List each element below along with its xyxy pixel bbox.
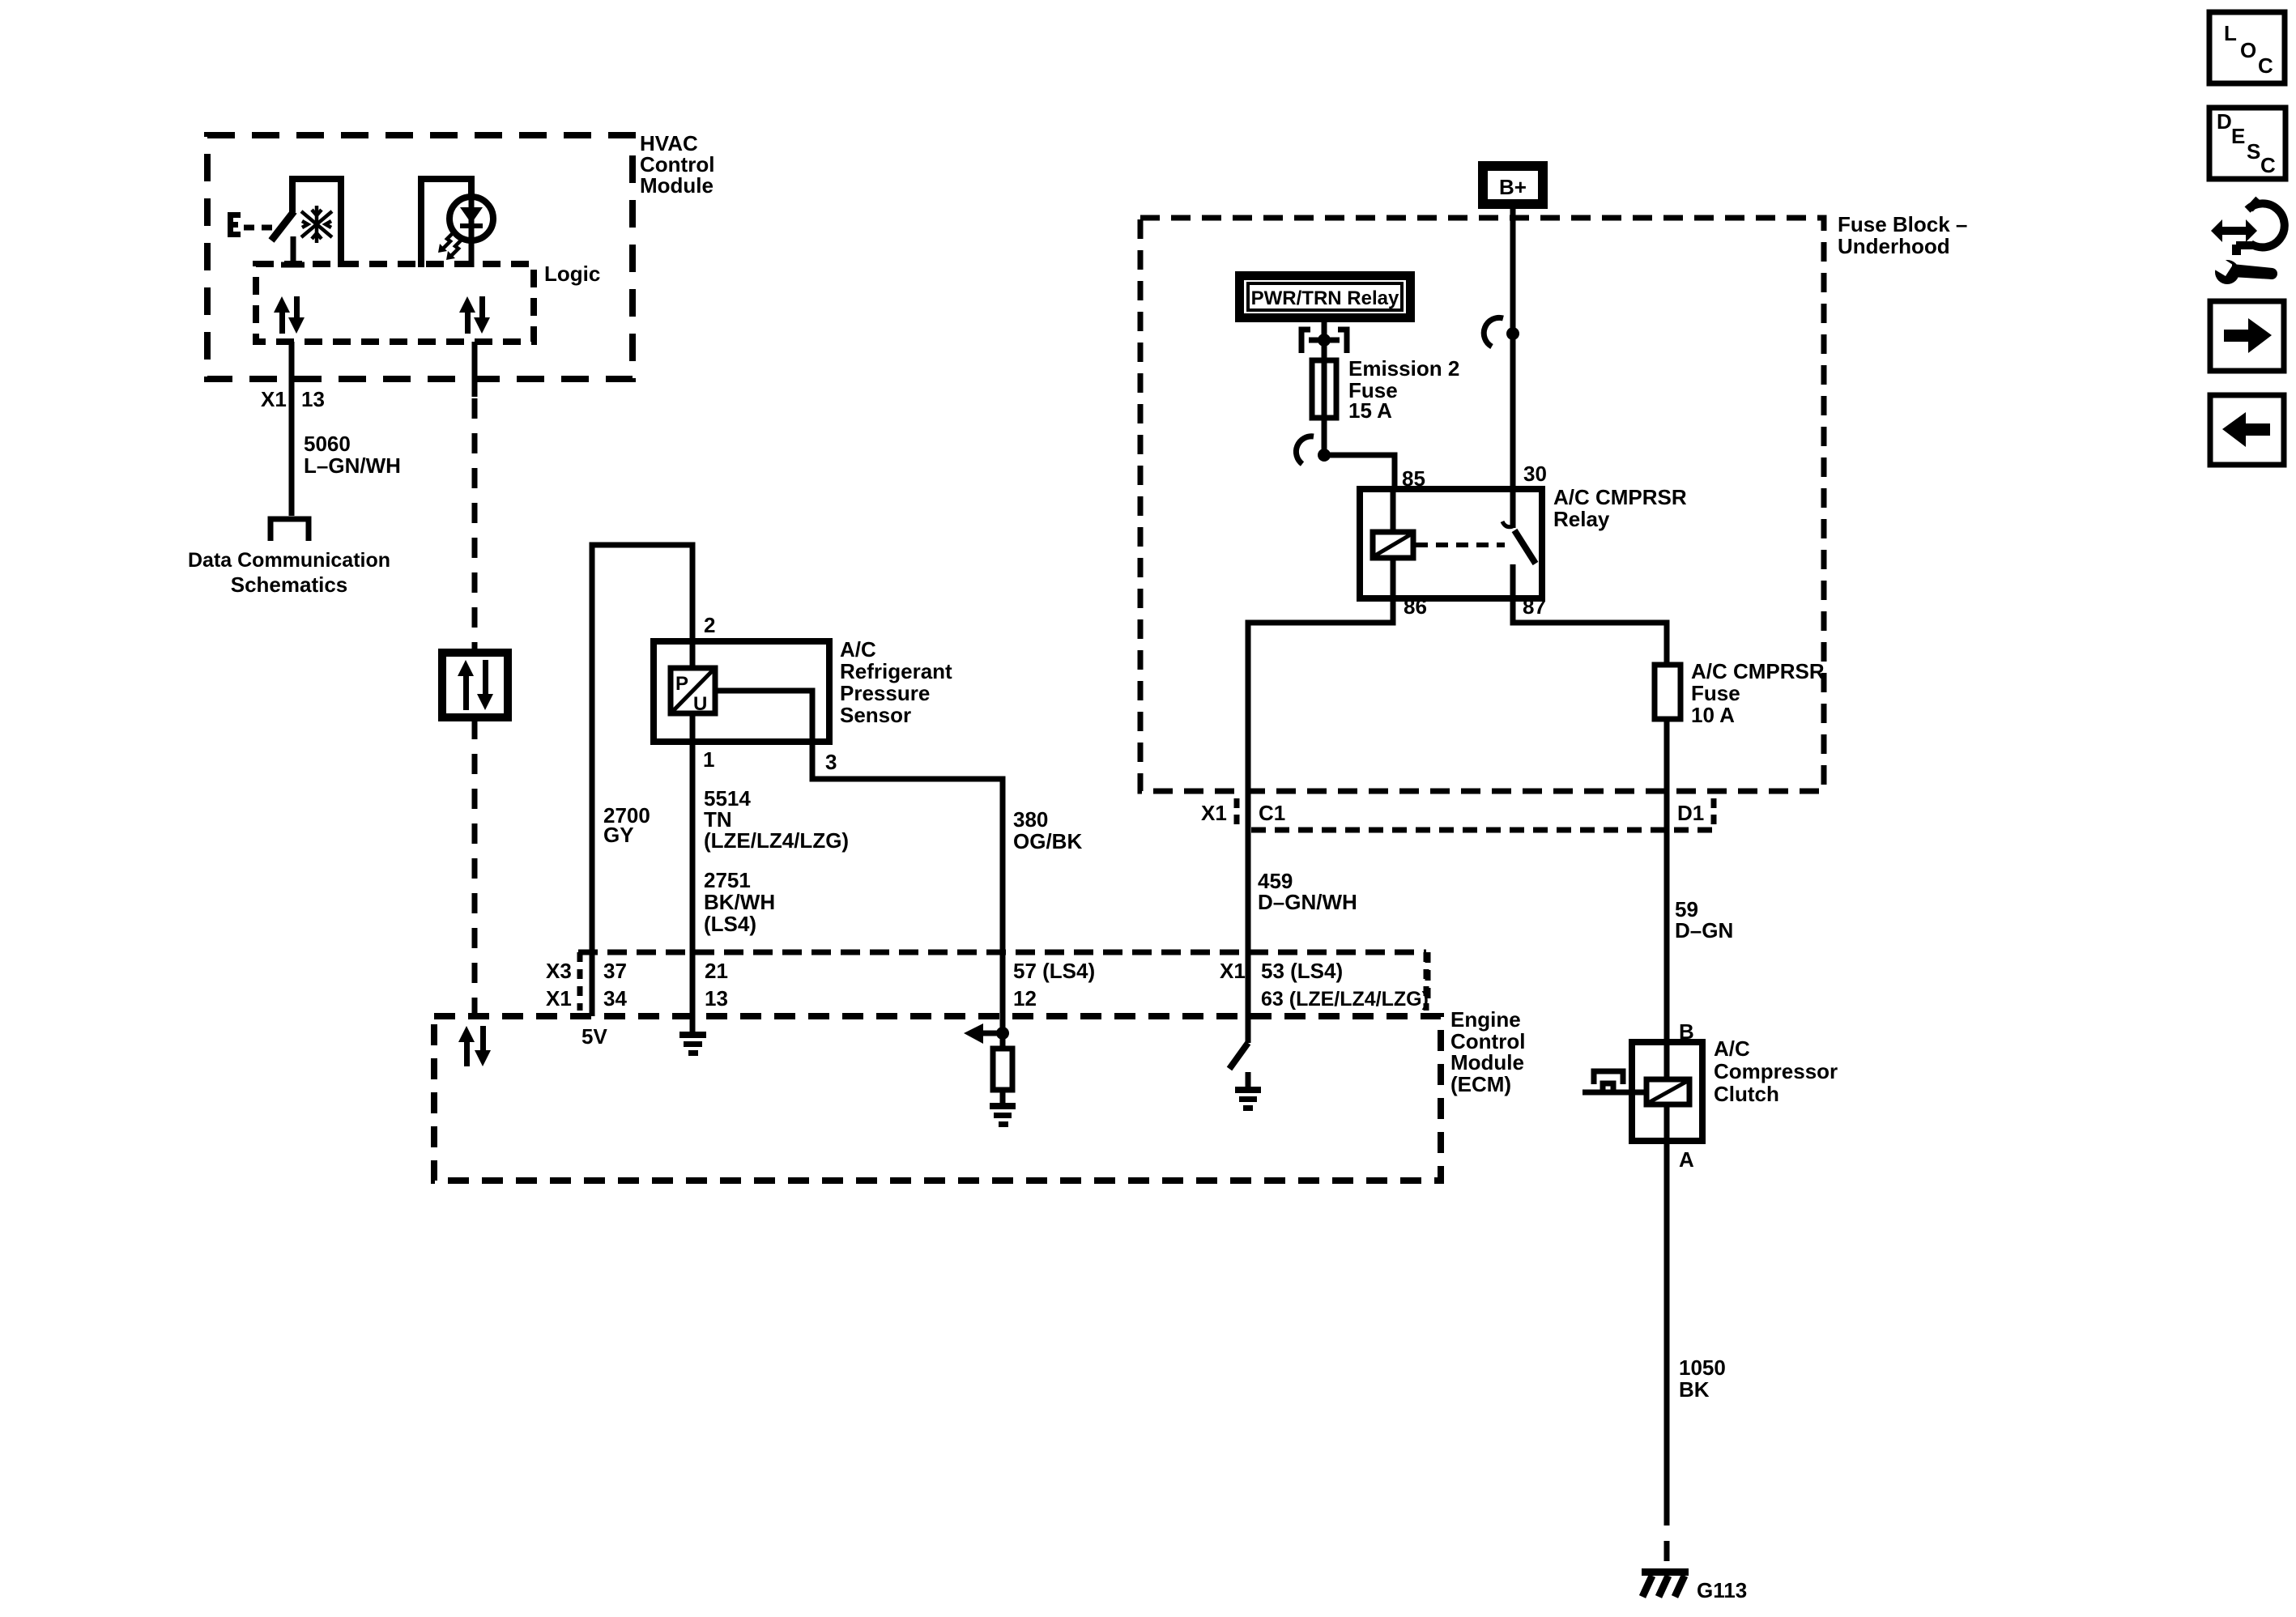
dashed serial data wire HVAC to ECM xyxy=(472,342,478,397)
forward arrow icon xyxy=(2210,301,2284,371)
A/C CMPRSR Fuse 10 A xyxy=(1655,665,1680,719)
svg-text:10 A: 10 A xyxy=(1691,703,1735,727)
svg-text:GY: GY xyxy=(603,823,634,847)
LED diode symbol xyxy=(460,199,483,240)
svg-text:X3: X3 xyxy=(546,959,572,983)
ECM driver switch (A/C relay control) xyxy=(1246,1016,1251,1043)
Logic dashed box xyxy=(256,264,534,342)
svg-text:BK/WH: BK/WH xyxy=(704,890,775,914)
schematic navigation icon (double arrow / wrench) xyxy=(2211,199,2285,284)
svg-text:D–GN/WH: D–GN/WH xyxy=(1258,890,1357,914)
svg-text:G113: G113 xyxy=(1697,1578,1747,1602)
connector bracket D1 right xyxy=(1711,798,1717,824)
svg-text:D–GN: D–GN xyxy=(1675,918,1733,943)
svg-text:L: L xyxy=(2224,21,2237,45)
LED circle xyxy=(449,197,493,240)
svg-text:Compressor: Compressor xyxy=(1714,1059,1838,1083)
svg-text:D1: D1 xyxy=(1677,801,1704,825)
wire B+ to relay 30 xyxy=(1510,209,1516,489)
svg-text:Underhood: Underhood xyxy=(1838,234,1950,258)
svg-text:34: 34 xyxy=(603,986,627,1011)
A/C indicator LED box xyxy=(421,179,471,267)
snowflake icon xyxy=(301,206,332,243)
serial data arrows box on wire xyxy=(442,653,508,717)
HVAC Control Module dashed box xyxy=(207,135,633,379)
svg-text:Sensor: Sensor xyxy=(840,703,911,727)
signal arrow into ECM xyxy=(983,1031,1003,1036)
svg-text:A/C CMPRSR: A/C CMPRSR xyxy=(1691,659,1825,683)
ground inside ECM (sensor low reference) xyxy=(679,1016,706,1056)
Engine Control Module dashed box xyxy=(434,1016,1441,1181)
wire dashed from E to switch xyxy=(244,225,276,231)
svg-text:15 A: 15 A xyxy=(1348,398,1392,423)
svg-text:Fuse: Fuse xyxy=(1691,681,1740,705)
svg-text:57 (LS4): 57 (LS4) xyxy=(1013,959,1095,983)
connector bracket X1 left xyxy=(1234,798,1240,824)
svg-text:13: 13 xyxy=(705,986,728,1011)
connector bracket far right xyxy=(1425,952,1431,1004)
svg-text:Clutch: Clutch xyxy=(1714,1082,1779,1106)
clutch mechanical linkage symbol xyxy=(1582,1071,1646,1095)
svg-text:380: 380 xyxy=(1013,807,1048,832)
svg-text:L–GN/WH: L–GN/WH xyxy=(304,453,401,478)
relay switch contact 30 xyxy=(1510,489,1516,528)
Fuse Block - Underhood dashed box xyxy=(1140,218,1824,791)
svg-text:Refrigerant: Refrigerant xyxy=(840,659,952,683)
Emission 2 Fuse 15 A xyxy=(1312,360,1336,418)
svg-text:37: 37 xyxy=(603,959,627,983)
svg-text:A/C: A/C xyxy=(1714,1036,1750,1061)
svg-text:(ECM): (ECM) xyxy=(1450,1072,1511,1096)
svg-text:Data Communication: Data Communication xyxy=(188,549,390,572)
back arrow icon xyxy=(2210,395,2284,465)
connector bracket left xyxy=(577,952,583,1011)
wire fuse to D1 xyxy=(1664,719,1670,1042)
A/C request switch S1 (snowflake switch) box xyxy=(292,179,341,267)
ECM serial data arrows xyxy=(458,1026,491,1066)
P/U transducer box xyxy=(671,668,715,715)
node E (external connection) xyxy=(228,212,241,237)
off-page reference to Data Communication Schematics xyxy=(270,519,309,541)
svg-text:C: C xyxy=(2260,153,2276,177)
svg-text:53 (LS4): 53 (LS4) xyxy=(1261,959,1343,983)
dashed wire to G113 xyxy=(1664,1505,1670,1574)
svg-text:1: 1 xyxy=(703,747,714,772)
pull-up resistor R xyxy=(1000,1038,1006,1049)
junction dot below fuse xyxy=(1318,449,1331,462)
wire pin 3 signal routing xyxy=(715,691,1003,1030)
svg-text:Fuse Block –: Fuse Block – xyxy=(1838,212,1967,236)
clip below fuse xyxy=(1296,436,1314,464)
svg-text:1050: 1050 xyxy=(1679,1355,1726,1380)
svg-text:Schematics: Schematics xyxy=(231,572,348,597)
svg-text:Logic: Logic xyxy=(544,262,600,286)
terminal bracket under PWR/TRN relay xyxy=(1301,330,1347,353)
svg-text:86: 86 xyxy=(1404,594,1427,619)
svg-text:X1: X1 xyxy=(261,387,287,411)
svg-text:S: S xyxy=(2247,139,2260,164)
relay coil xyxy=(1373,489,1413,598)
LOC icon xyxy=(2209,12,2285,83)
svg-text:Module: Module xyxy=(1450,1050,1524,1074)
svg-text:BK: BK xyxy=(1679,1377,1710,1402)
svg-text:(LS4): (LS4) xyxy=(704,912,756,936)
wire LED to logic box xyxy=(469,240,475,267)
svg-text:OG/BK: OG/BK xyxy=(1013,829,1082,853)
svg-text:O: O xyxy=(2240,38,2256,62)
PWR/TRN Relay reference box xyxy=(1235,271,1415,322)
svg-text:(LZE/LZ4/LZG): (LZE/LZ4/LZG) xyxy=(704,828,849,853)
svg-text:PWR/TRN Relay: PWR/TRN Relay xyxy=(1251,287,1399,309)
svg-text:B+: B+ xyxy=(1499,175,1527,199)
svg-text:C: C xyxy=(2258,53,2273,78)
ground G113 xyxy=(1642,1568,1689,1597)
switch arm xyxy=(271,211,294,240)
A/C Compressor Clutch box xyxy=(1632,1042,1702,1141)
junction dot above fuse xyxy=(1318,334,1331,347)
wire pin2 into P/U xyxy=(690,641,696,668)
svg-text:A/C CMPRSR: A/C CMPRSR xyxy=(1553,485,1687,509)
svg-text:21: 21 xyxy=(705,959,728,983)
svg-text:Module: Module xyxy=(640,173,714,198)
wire relay 86 to ECM (459 circuit) xyxy=(1248,598,1393,1043)
clip on B+ wire xyxy=(1484,317,1503,347)
A/C Refrigerant Pressure Sensor box xyxy=(654,641,829,742)
svg-text:30: 30 xyxy=(1523,462,1547,486)
svg-text:13: 13 xyxy=(301,387,325,411)
svg-text:5V: 5V xyxy=(581,1024,607,1049)
svg-text:Relay: Relay xyxy=(1553,507,1610,531)
svg-text:3: 3 xyxy=(825,750,837,774)
switch fixed contact xyxy=(281,236,305,265)
svg-text:5060: 5060 xyxy=(304,432,351,456)
svg-text:Engine: Engine xyxy=(1450,1007,1521,1032)
ground under driver switch xyxy=(1235,1087,1261,1111)
svg-text:A: A xyxy=(1679,1147,1694,1172)
svg-text:2: 2 xyxy=(704,613,715,637)
svg-text:E: E xyxy=(2231,124,2245,148)
svg-text:63 (LZE/LZ4/LZG): 63 (LZE/LZ4/LZG) xyxy=(1261,988,1429,1011)
svg-text:C1: C1 xyxy=(1259,801,1285,825)
svg-text:2751: 2751 xyxy=(704,868,751,892)
wire PWR/TRN relay to fuse xyxy=(1322,322,1327,455)
svg-text:X1: X1 xyxy=(546,986,572,1011)
logic serial-data arrows pair 2 xyxy=(459,296,490,334)
svg-text:Pressure: Pressure xyxy=(840,681,930,705)
svg-text:X1: X1 xyxy=(1201,801,1227,825)
connector bracket right xyxy=(1424,952,1429,1011)
ECM connector dashed line xyxy=(578,950,1426,955)
connector dashed line C1-D1 xyxy=(1251,828,1719,833)
relay switch terminal 87 xyxy=(1510,564,1516,598)
DESC icon xyxy=(2209,108,2285,179)
svg-text:X1: X1 xyxy=(1220,959,1246,983)
wire X1-13 from logic box down xyxy=(289,342,295,516)
svg-text:P: P xyxy=(675,673,688,695)
wire 2700 GY (ECM 5V feed up and over to sensor pin 2) xyxy=(592,545,692,1016)
B+ power feed box xyxy=(1478,161,1548,209)
ground under resistor xyxy=(990,1103,1016,1127)
clutch coil xyxy=(1646,1042,1689,1141)
svg-text:A/C: A/C xyxy=(840,637,876,662)
wire relay 87 to fuse xyxy=(1513,598,1667,665)
svg-text:Emission 2: Emission 2 xyxy=(1348,356,1459,381)
wire fuse to relay pin 85 xyxy=(1324,455,1395,489)
svg-text:12: 12 xyxy=(1013,986,1037,1011)
logic serial-data arrows pair 1 xyxy=(274,296,305,334)
A/C CMPRSR Relay box xyxy=(1360,489,1542,598)
signal input: junction dot xyxy=(996,1027,1009,1040)
wire 1050 BK xyxy=(1664,1141,1670,1505)
wire pin 1 (sensor ground) xyxy=(690,713,696,1016)
junction dot B+ wire xyxy=(1506,327,1519,340)
svg-text:U: U xyxy=(693,693,707,715)
LED light arrows xyxy=(443,232,462,256)
svg-text:D: D xyxy=(2217,109,2232,134)
svg-text:87: 87 xyxy=(1523,594,1546,619)
relay switch arm xyxy=(1514,530,1536,564)
relay actuation dashed link xyxy=(1416,543,1505,547)
